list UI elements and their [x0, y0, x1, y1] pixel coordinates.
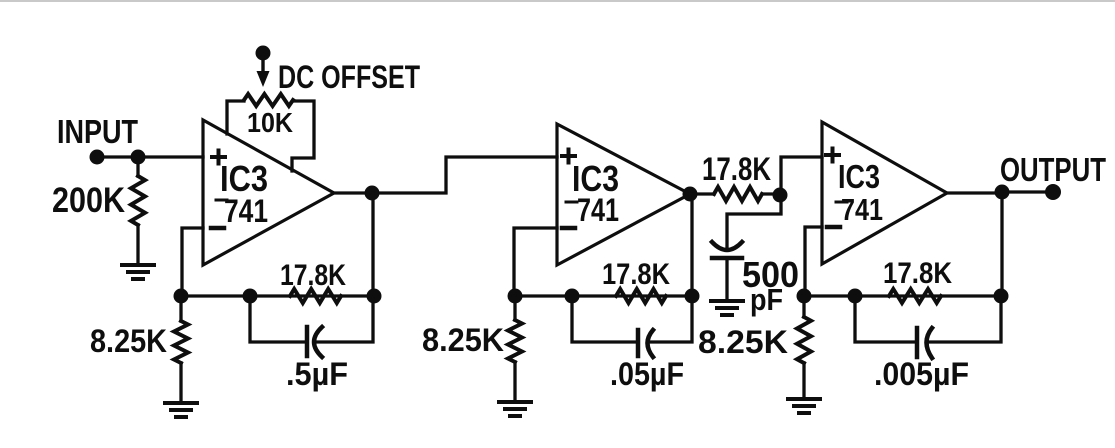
wire 8.25K1 leads	[179, 296, 182, 402]
svg-text:8.25K: 8.25K	[422, 322, 504, 358]
wire to output terminal	[1002, 190, 1053, 193]
capacitor .5uF curved plate	[314, 327, 322, 357]
capacitor .5uF left plate	[305, 327, 310, 356]
svg-text:17.8K: 17.8K	[883, 257, 952, 290]
wire cap2 loop left	[572, 296, 636, 342]
wire node up to U3 + input	[781, 157, 822, 195]
node dot fb3 mid	[848, 289, 863, 304]
wire 8.25K2 leads	[513, 296, 516, 401]
op-amp U2 dash mark	[566, 201, 577, 204]
node dot after series R	[773, 188, 788, 203]
input terminal dot	[90, 150, 105, 165]
op-amp U1 plus input marker	[212, 151, 225, 164]
node dot fb1 left	[174, 289, 189, 304]
potentiometer 10K loop left leg	[227, 101, 244, 134]
svg-text:17.8K: 17.8K	[702, 151, 771, 187]
node dot fb2 right	[685, 289, 700, 304]
capacitor .005uF left plate	[915, 328, 920, 357]
resistor 200K	[131, 176, 145, 225]
resistor 17.8K stage2 feedback	[616, 289, 666, 303]
ground under 500pF	[711, 301, 743, 315]
op-amp U3 plus input marker	[826, 149, 839, 162]
wire 200K bottom lead	[136, 225, 139, 264]
wire U2 feedback node line	[515, 294, 692, 297]
op-amp U1 dash mark	[216, 199, 227, 202]
wire cap3 loop right	[927, 300, 1001, 342]
svg-text:10K: 10K	[247, 107, 293, 138]
capacitor .05uF left plate	[636, 330, 641, 356]
wire U3 feedback node line	[804, 294, 1001, 297]
wire fb2 vertical to output	[690, 194, 693, 296]
resistor 17.8K series	[714, 187, 762, 201]
wire U3 inverting input	[805, 227, 822, 294]
capacitor 500pF curved plate	[712, 242, 742, 250]
op-amp U3 minus input marker	[827, 225, 840, 230]
resistor 10K zigzag	[244, 94, 293, 106]
svg-text:8.25K: 8.25K	[90, 323, 167, 359]
node dot U2 output	[683, 187, 698, 202]
wire 500pF bottom lead	[725, 258, 728, 300]
svg-text:DC OFFSET: DC OFFSET	[278, 59, 420, 95]
wire dc offset arrow stem	[261, 57, 264, 73]
svg-text:IC3: IC3	[838, 158, 880, 195]
resistor 8.25K stage1	[174, 321, 188, 363]
wire cap3 loop left	[855, 296, 915, 342]
capacitor 500pF straight plate	[712, 256, 742, 261]
potentiometer wiper arrow	[257, 71, 270, 87]
svg-text:17.8K: 17.8K	[602, 258, 670, 291]
svg-text:741: 741	[577, 192, 619, 228]
op-amp U3 IC3 741 triangle	[822, 122, 947, 264]
top scan border line	[0, 0, 1115, 2]
resistor 17.8K stage3 feedback	[889, 289, 941, 303]
wire cap1 loop right	[317, 300, 373, 342]
wire series R right lead	[762, 192, 780, 195]
op-amp U3 dash mark	[836, 201, 847, 204]
resistor 8.25K stage2	[508, 320, 522, 362]
svg-text:741: 741	[841, 192, 883, 227]
resistor 8.25K stage3	[797, 317, 811, 363]
op-amp U1 minus input marker	[211, 226, 224, 231]
svg-text:741: 741	[224, 193, 268, 229]
op-amp U1 IC3 741 triangle	[203, 120, 334, 265]
svg-text:200K: 200K	[52, 181, 125, 220]
node dot fb1 right	[367, 289, 382, 304]
dc offset terminal dot	[256, 46, 271, 61]
node dot fb2 mid	[565, 289, 580, 304]
svg-text:INPUT: INPUT	[57, 113, 138, 150]
svg-text:.05µF: .05µF	[610, 356, 684, 392]
node dot U3 output	[995, 185, 1010, 200]
ground under 200K	[122, 265, 154, 279]
node dot fb3 right	[994, 289, 1009, 304]
node junction dot input/R-200K	[131, 150, 146, 165]
wire stage1 to stage2 step	[372, 157, 557, 193]
wire node down to 500pF	[727, 195, 781, 250]
op-amp U2 minus input marker	[562, 226, 575, 231]
node dot fb3 left	[797, 289, 812, 304]
capacitor .005uF curved plate	[927, 328, 933, 358]
op-amp U2 IC3 741 triangle	[557, 124, 690, 265]
node dot U1 output	[365, 186, 380, 201]
wire U2 output lead	[690, 192, 714, 195]
wire 8.25K3 leads	[802, 296, 805, 398]
svg-text:OUTPUT: OUTPUT	[1000, 151, 1106, 188]
wire U3 output	[947, 191, 1002, 194]
svg-text:.5µF: .5µF	[286, 356, 348, 392]
wire U2 inverting input	[514, 228, 557, 294]
wire fb1 vertical to output	[371, 193, 374, 296]
op-amp U2 plus input marker	[562, 150, 575, 163]
svg-text:pF: pF	[750, 282, 783, 317]
wire input to op-amp U1 +	[97, 155, 203, 158]
ground under 8.25K stage3	[788, 399, 820, 413]
wire cap1 loop left	[250, 296, 305, 342]
output terminal dot	[1045, 184, 1061, 200]
ground under 8.25K stage2	[499, 402, 531, 416]
capacitor .05uF curved plate	[648, 330, 654, 357]
wire fb3 vertical to output	[1000, 192, 1003, 296]
wire cap2 loop right	[648, 300, 692, 342]
svg-text:17.8K: 17.8K	[280, 259, 346, 292]
wire U1 feedback node line	[181, 294, 374, 297]
wire U1 inverting input	[182, 228, 203, 294]
resistor 17.8K stage1 feedback	[290, 289, 341, 303]
wire U1 output to node	[334, 191, 372, 194]
node dot fb1 mid	[243, 289, 258, 304]
potentiometer 10K loop right leg	[292, 101, 314, 171]
svg-text:.005µF: .005µF	[874, 356, 969, 392]
node dot fb2 left	[508, 289, 523, 304]
svg-text:8.25K: 8.25K	[698, 324, 788, 360]
wire 200K top lead	[136, 157, 139, 176]
ground under 8.25K stage1	[165, 403, 197, 417]
